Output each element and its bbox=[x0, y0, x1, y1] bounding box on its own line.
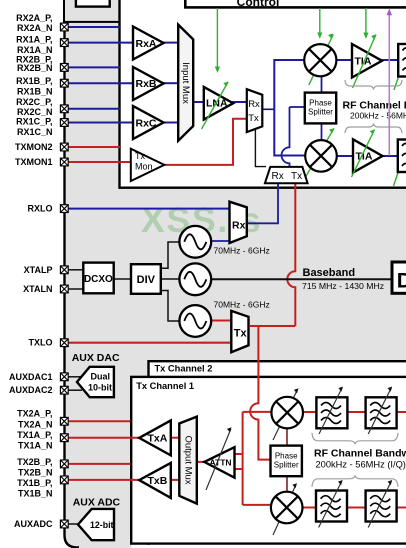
wire Tx filter row2 out bbox=[397, 507, 406, 509]
pin RX1C bbox=[60, 119, 68, 127]
svg-text:Output Mux: Output Mux bbox=[183, 435, 194, 484]
wire RxA to Input Mux bbox=[163, 42, 178, 44]
green control arrow to LNA bbox=[215, 8, 220, 73]
svg-text:TX1A_P,: TX1A_P, bbox=[17, 430, 52, 440]
pin AUXDAC2 bbox=[60, 386, 68, 394]
pin AUXDAC1 bbox=[60, 373, 68, 381]
svg-text:Tx Channel 1: Tx Channel 1 bbox=[136, 381, 194, 391]
wire Tx mixer1 LO stub bbox=[286, 429, 288, 447]
filter F2 (Rx row2) bbox=[394, 140, 406, 187]
wire Tx LO branch with hop over mixer feed bbox=[250, 326, 270, 460]
pin RX2B bbox=[60, 64, 68, 72]
wire TxB to Output Mux bbox=[170, 479, 180, 481]
pin TX1A bbox=[60, 434, 68, 442]
pin RX2C bbox=[60, 105, 68, 113]
svg-text:TX1B_P,: TX1B_P, bbox=[17, 478, 52, 488]
pin RXLO bbox=[60, 205, 68, 213]
wire TxA to Output Mux bbox=[170, 437, 180, 439]
svg-text:TX2A_P,: TX2A_P, bbox=[17, 408, 52, 418]
amplifier RxB bbox=[133, 67, 164, 100]
svg-text:XTALN: XTALN bbox=[23, 284, 52, 294]
svg-text:70MHz - 6GHz: 70MHz - 6GHz bbox=[214, 246, 270, 256]
phase splitter PS2 bbox=[271, 446, 302, 477]
svg-text:RxA: RxA bbox=[136, 38, 157, 50]
svg-text:AUX ADC: AUX ADC bbox=[73, 497, 121, 509]
Rx1 front-end block bbox=[120, 0, 406, 188]
wire Tx mixer2 feed bbox=[243, 504, 271, 506]
svg-text:RX2A_P,: RX2A_P, bbox=[16, 13, 52, 23]
wire TXLO bbox=[68, 342, 232, 344]
wire DIV to osc2 bbox=[160, 278, 180, 280]
filter F4 (Tx row1 b) bbox=[366, 387, 397, 435]
filter F5 (Tx row2 a) bbox=[316, 480, 347, 528]
wire Tx LO mux output bbox=[250, 325, 295, 327]
pin TX2B bbox=[60, 460, 68, 468]
wire AUXADC stub bbox=[68, 523, 80, 525]
phase splitter PS1 bbox=[305, 93, 336, 124]
wire DCXO to DIV bbox=[113, 278, 132, 280]
TIA U2 bbox=[352, 130, 383, 178]
svg-text:AUX DAC: AUX DAC bbox=[72, 352, 120, 364]
aux DAC pentagon bbox=[77, 367, 114, 397]
amplifier TxMon bbox=[131, 149, 165, 181]
svg-text:LNA: LNA bbox=[206, 98, 228, 110]
pin XTALP bbox=[60, 266, 68, 274]
svg-text:TXMON1: TXMON1 bbox=[15, 157, 53, 167]
svg-text:200kHz - 56MH: 200kHz - 56MH bbox=[350, 110, 406, 120]
wire mixer1 to TIA1 bbox=[337, 59, 353, 61]
filter F1 (Rx row1) bbox=[394, 44, 406, 90]
ATTN attenuator bbox=[204, 427, 234, 490]
pin TX1B bbox=[60, 476, 68, 484]
Tx Channel 1 box bbox=[131, 377, 406, 544]
svg-text:RX2C_N: RX2C_N bbox=[17, 107, 53, 117]
filter F3 (Tx row1 a) bbox=[316, 387, 347, 435]
svg-text:Rx: Rx bbox=[248, 99, 260, 110]
Tx Channel 2 box bbox=[149, 361, 406, 548]
svg-text:TX1B_N: TX1B_N bbox=[18, 488, 53, 498]
wire osc1 to Rx LO mux bbox=[212, 240, 230, 242]
svg-text:DCXO: DCXO bbox=[84, 274, 113, 285]
oscillator osc2 (baseband synth) bbox=[179, 263, 211, 295]
pin TXLO bbox=[60, 339, 68, 347]
wire baseband (osc2 to D box) bbox=[212, 278, 392, 280]
svg-text:TxB: TxB bbox=[148, 475, 168, 487]
svg-text:RxC: RxC bbox=[136, 117, 157, 129]
svg-text:TX2B_P,: TX2B_P, bbox=[17, 457, 52, 467]
svg-text:RxB: RxB bbox=[136, 78, 157, 90]
svg-text:Baseband: Baseband bbox=[303, 267, 356, 279]
svg-text:ATTN: ATTN bbox=[210, 457, 232, 467]
wire Tx filters row1 link bbox=[347, 411, 366, 413]
pin TX2A bbox=[60, 417, 68, 425]
D box (baseband DAC, cut) bbox=[392, 262, 406, 293]
oscillator osc1 (Rx synth) bbox=[179, 226, 211, 258]
brace Rx row2 bbox=[345, 124, 402, 134]
svg-text:AUXDAC2: AUXDAC2 bbox=[9, 385, 53, 395]
wire RxB to Input Mux bbox=[163, 82, 178, 84]
wire AUXDAC1 stub bbox=[68, 376, 82, 378]
svg-text:12-bit: 12-bit bbox=[90, 520, 114, 530]
svg-text:Phase: Phase bbox=[309, 98, 332, 107]
wire Tx line C with hop over baseband bbox=[287, 184, 295, 326]
wire LNA to RxTx switch bbox=[232, 101, 247, 103]
wire Tx mixer1 to filter bbox=[303, 411, 317, 413]
pin RX2A bbox=[60, 23, 68, 31]
amplifier TxA bbox=[139, 420, 171, 455]
wire TX2B bbox=[68, 463, 131, 465]
pin RX1B bbox=[60, 79, 68, 87]
svg-text:70MHz - 6GHz: 70MHz - 6GHz bbox=[214, 300, 270, 310]
wire RX1C bbox=[68, 122, 133, 124]
green control arrow to mixer M1 bbox=[317, 8, 322, 39]
svg-text:AUXDAC1: AUXDAC1 bbox=[9, 372, 53, 382]
amplifier LNA bbox=[204, 87, 233, 120]
amplifier RxA bbox=[133, 27, 164, 60]
pin AUXADC bbox=[60, 520, 68, 528]
label Baseband bbox=[302, 267, 384, 291]
wire TIA2 to filter bbox=[379, 155, 398, 157]
svg-text:Dual: Dual bbox=[91, 372, 111, 382]
wire TXMON1 bbox=[68, 161, 131, 163]
wire TX1B bbox=[68, 479, 140, 481]
wire antenna switch Rx to Rx LO mux bbox=[248, 184, 278, 223]
mixer M1 (Rx row1) bbox=[304, 34, 336, 86]
svg-text:AUXADC: AUXADC bbox=[14, 519, 53, 529]
wire mixer2 LO stub bbox=[321, 123, 323, 141]
wire Output Mux to ATTN bbox=[197, 461, 205, 463]
purple RSSI line to Control bbox=[387, 9, 392, 156]
RxTx switch (top) bbox=[247, 89, 262, 132]
wire TX1A bbox=[68, 437, 140, 439]
wire RX2B bbox=[68, 66, 120, 68]
svg-text:TIA: TIA bbox=[355, 55, 372, 67]
wire LO riser B with hop over mixer2 feed bbox=[282, 107, 290, 168]
svg-text:DIV: DIV bbox=[137, 274, 156, 286]
wire AUXDAC2 stub bbox=[68, 389, 82, 391]
wire ATTN output taps bbox=[235, 454, 243, 469]
wire RXLO bbox=[68, 208, 230, 210]
svg-text:TXMON2: TXMON2 bbox=[15, 142, 53, 152]
mixer M4 (Tx row2) bbox=[271, 483, 303, 535]
wire Tx filters row2 link bbox=[347, 507, 366, 509]
svg-text:Tx: Tx bbox=[291, 171, 302, 182]
wire RxTx switch output stub bbox=[262, 108, 274, 110]
Control box bbox=[185, 0, 406, 9]
svg-text:XTALP: XTALP bbox=[24, 265, 53, 275]
amplifier TxB bbox=[139, 463, 171, 498]
white strip below Tx Channel 1 box bbox=[132, 545, 406, 548]
wire TxMon output bbox=[164, 119, 247, 165]
svg-text:Rx: Rx bbox=[232, 220, 246, 232]
mixer M2 (Rx row2) bbox=[302, 128, 337, 183]
svg-text:Splitter: Splitter bbox=[308, 108, 333, 117]
DIV box bbox=[131, 264, 161, 294]
wire DIV to osc3 bbox=[160, 291, 180, 322]
svg-text:Tx: Tx bbox=[135, 151, 145, 161]
wire RX1A bbox=[68, 42, 133, 44]
svg-text:Input Mux: Input Mux bbox=[180, 62, 191, 104]
wire phase splitter 1 input bbox=[290, 106, 305, 108]
pin RX1A bbox=[60, 39, 68, 47]
wire RX2C bbox=[68, 108, 120, 110]
svg-text:RX1A_N: RX1A_N bbox=[17, 45, 53, 55]
svg-text:D: D bbox=[397, 270, 406, 293]
wire Tx signal distribution vertical bbox=[242, 412, 244, 505]
svg-text:RX2B_N: RX2B_N bbox=[17, 63, 53, 73]
svg-text:RX1C_P,: RX1C_P, bbox=[16, 117, 52, 127]
svg-text:RX2A_N: RX2A_N bbox=[17, 23, 53, 33]
svg-text:200kHz - 56MHz (I/Q): 200kHz - 56MHz (I/Q) bbox=[316, 459, 406, 469]
wire Tx mixer2 to filter bbox=[303, 507, 318, 509]
svg-text:Tx: Tx bbox=[248, 113, 259, 124]
oscillator osc3 (Tx synth) bbox=[179, 305, 211, 337]
svg-text:RF Channel Bandwidth: RF Channel Bandwidth bbox=[314, 447, 406, 459]
wire RX2A bbox=[68, 26, 120, 28]
output mux bbox=[179, 417, 197, 504]
svg-text:TxA: TxA bbox=[148, 433, 168, 445]
wire TXMON2 bbox=[68, 146, 120, 148]
pin XTALN bbox=[60, 285, 68, 293]
svg-text:10-bit: 10-bit bbox=[88, 382, 112, 392]
svg-text:TX2A_N: TX2A_N bbox=[18, 419, 53, 429]
wire TIA1 to filter bbox=[379, 59, 399, 61]
label RF Channel Bandwidth (Rx) bbox=[343, 100, 406, 121]
svg-text:Phase: Phase bbox=[275, 451, 298, 460]
wire RxC to Input Mux bbox=[163, 122, 178, 124]
wire node A: Rx distribution vertical bbox=[274, 60, 305, 156]
Rx LO mux bbox=[230, 202, 247, 243]
svg-text:RX1B_P,: RX1B_P, bbox=[16, 76, 52, 86]
Rx2 front-end block (cut off at top) bbox=[64, 0, 121, 22]
svg-text:Splitter: Splitter bbox=[274, 461, 299, 470]
wire mixer2 to TIA2 bbox=[337, 155, 354, 157]
label RF Channel Bandwidth (Tx) bbox=[314, 447, 406, 469]
wire Tx mixer1 feed bbox=[243, 411, 272, 413]
wire mixer1 LO stub bbox=[321, 76, 323, 93]
svg-text:Mon: Mon bbox=[135, 161, 153, 171]
filter F6 (Tx row2 b) bbox=[366, 480, 397, 528]
svg-text:TX2B_N: TX2B_N bbox=[18, 468, 53, 478]
antenna RxTx switch bbox=[265, 167, 308, 183]
svg-text:Rx: Rx bbox=[272, 171, 284, 182]
mixer M3 (Tx row1) bbox=[271, 388, 303, 440]
wire Tx filter row1 out bbox=[397, 411, 406, 413]
svg-text:Tx: Tx bbox=[234, 328, 248, 340]
brace Tx row2 bbox=[312, 475, 398, 487]
input mux bbox=[178, 25, 193, 141]
svg-text:RX2C_P,: RX2C_P, bbox=[16, 97, 52, 107]
brace Rx row1 bbox=[345, 80, 402, 90]
amplifier RxC bbox=[133, 106, 164, 139]
wire Tx mixer2 LO stub bbox=[286, 476, 288, 492]
TIA U1 bbox=[352, 35, 382, 89]
pin TXMON2 bbox=[60, 143, 68, 151]
svg-text:RX1B_N: RX1B_N bbox=[17, 87, 53, 97]
wire osc3 to Tx LO mux bbox=[211, 320, 232, 322]
aux ADC pentagon bbox=[78, 509, 114, 540]
svg-text:Tx Channel 2: Tx Channel 2 bbox=[155, 364, 213, 374]
wire switch link (black) bbox=[255, 129, 266, 167]
svg-text:RX1A_P,: RX1A_P, bbox=[16, 35, 52, 45]
svg-text:715 MHz - 1430 MHz: 715 MHz - 1430 MHz bbox=[302, 281, 384, 291]
pin TXMON1 bbox=[60, 158, 68, 166]
svg-text:RX1C_N: RX1C_N bbox=[17, 127, 53, 137]
svg-text:Control: Control bbox=[237, 0, 280, 9]
Tx LO mux bbox=[231, 311, 248, 352]
wire XTALN bbox=[68, 288, 84, 290]
DCXO box bbox=[83, 263, 113, 294]
wire Input Mux to LNA bbox=[193, 101, 204, 103]
svg-text:RXLO: RXLO bbox=[27, 204, 52, 214]
svg-text:TX1A_N: TX1A_N bbox=[18, 440, 53, 450]
green diagonal arrow through LNA bbox=[202, 82, 229, 129]
green control arrow to TIA U1 bbox=[363, 8, 368, 39]
wire TX2A bbox=[68, 420, 131, 422]
svg-text:TXLO: TXLO bbox=[29, 338, 53, 348]
wire RX1B bbox=[68, 82, 133, 84]
wire XTALP bbox=[68, 269, 84, 271]
wire DIV to osc1 bbox=[160, 242, 180, 268]
brace Tx row1 bbox=[312, 433, 398, 445]
